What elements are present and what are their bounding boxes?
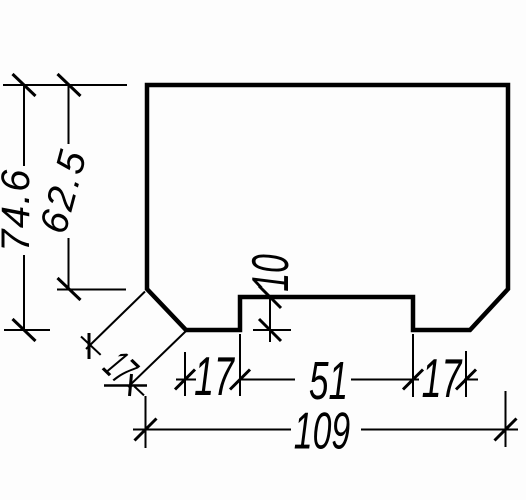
svg-text:109: 109 xyxy=(294,402,350,460)
svg-text:10: 10 xyxy=(242,254,300,292)
svg-text:17: 17 xyxy=(422,347,463,409)
svg-text:17: 17 xyxy=(194,345,235,407)
svg-text:74.6: 74.6 xyxy=(0,168,38,252)
